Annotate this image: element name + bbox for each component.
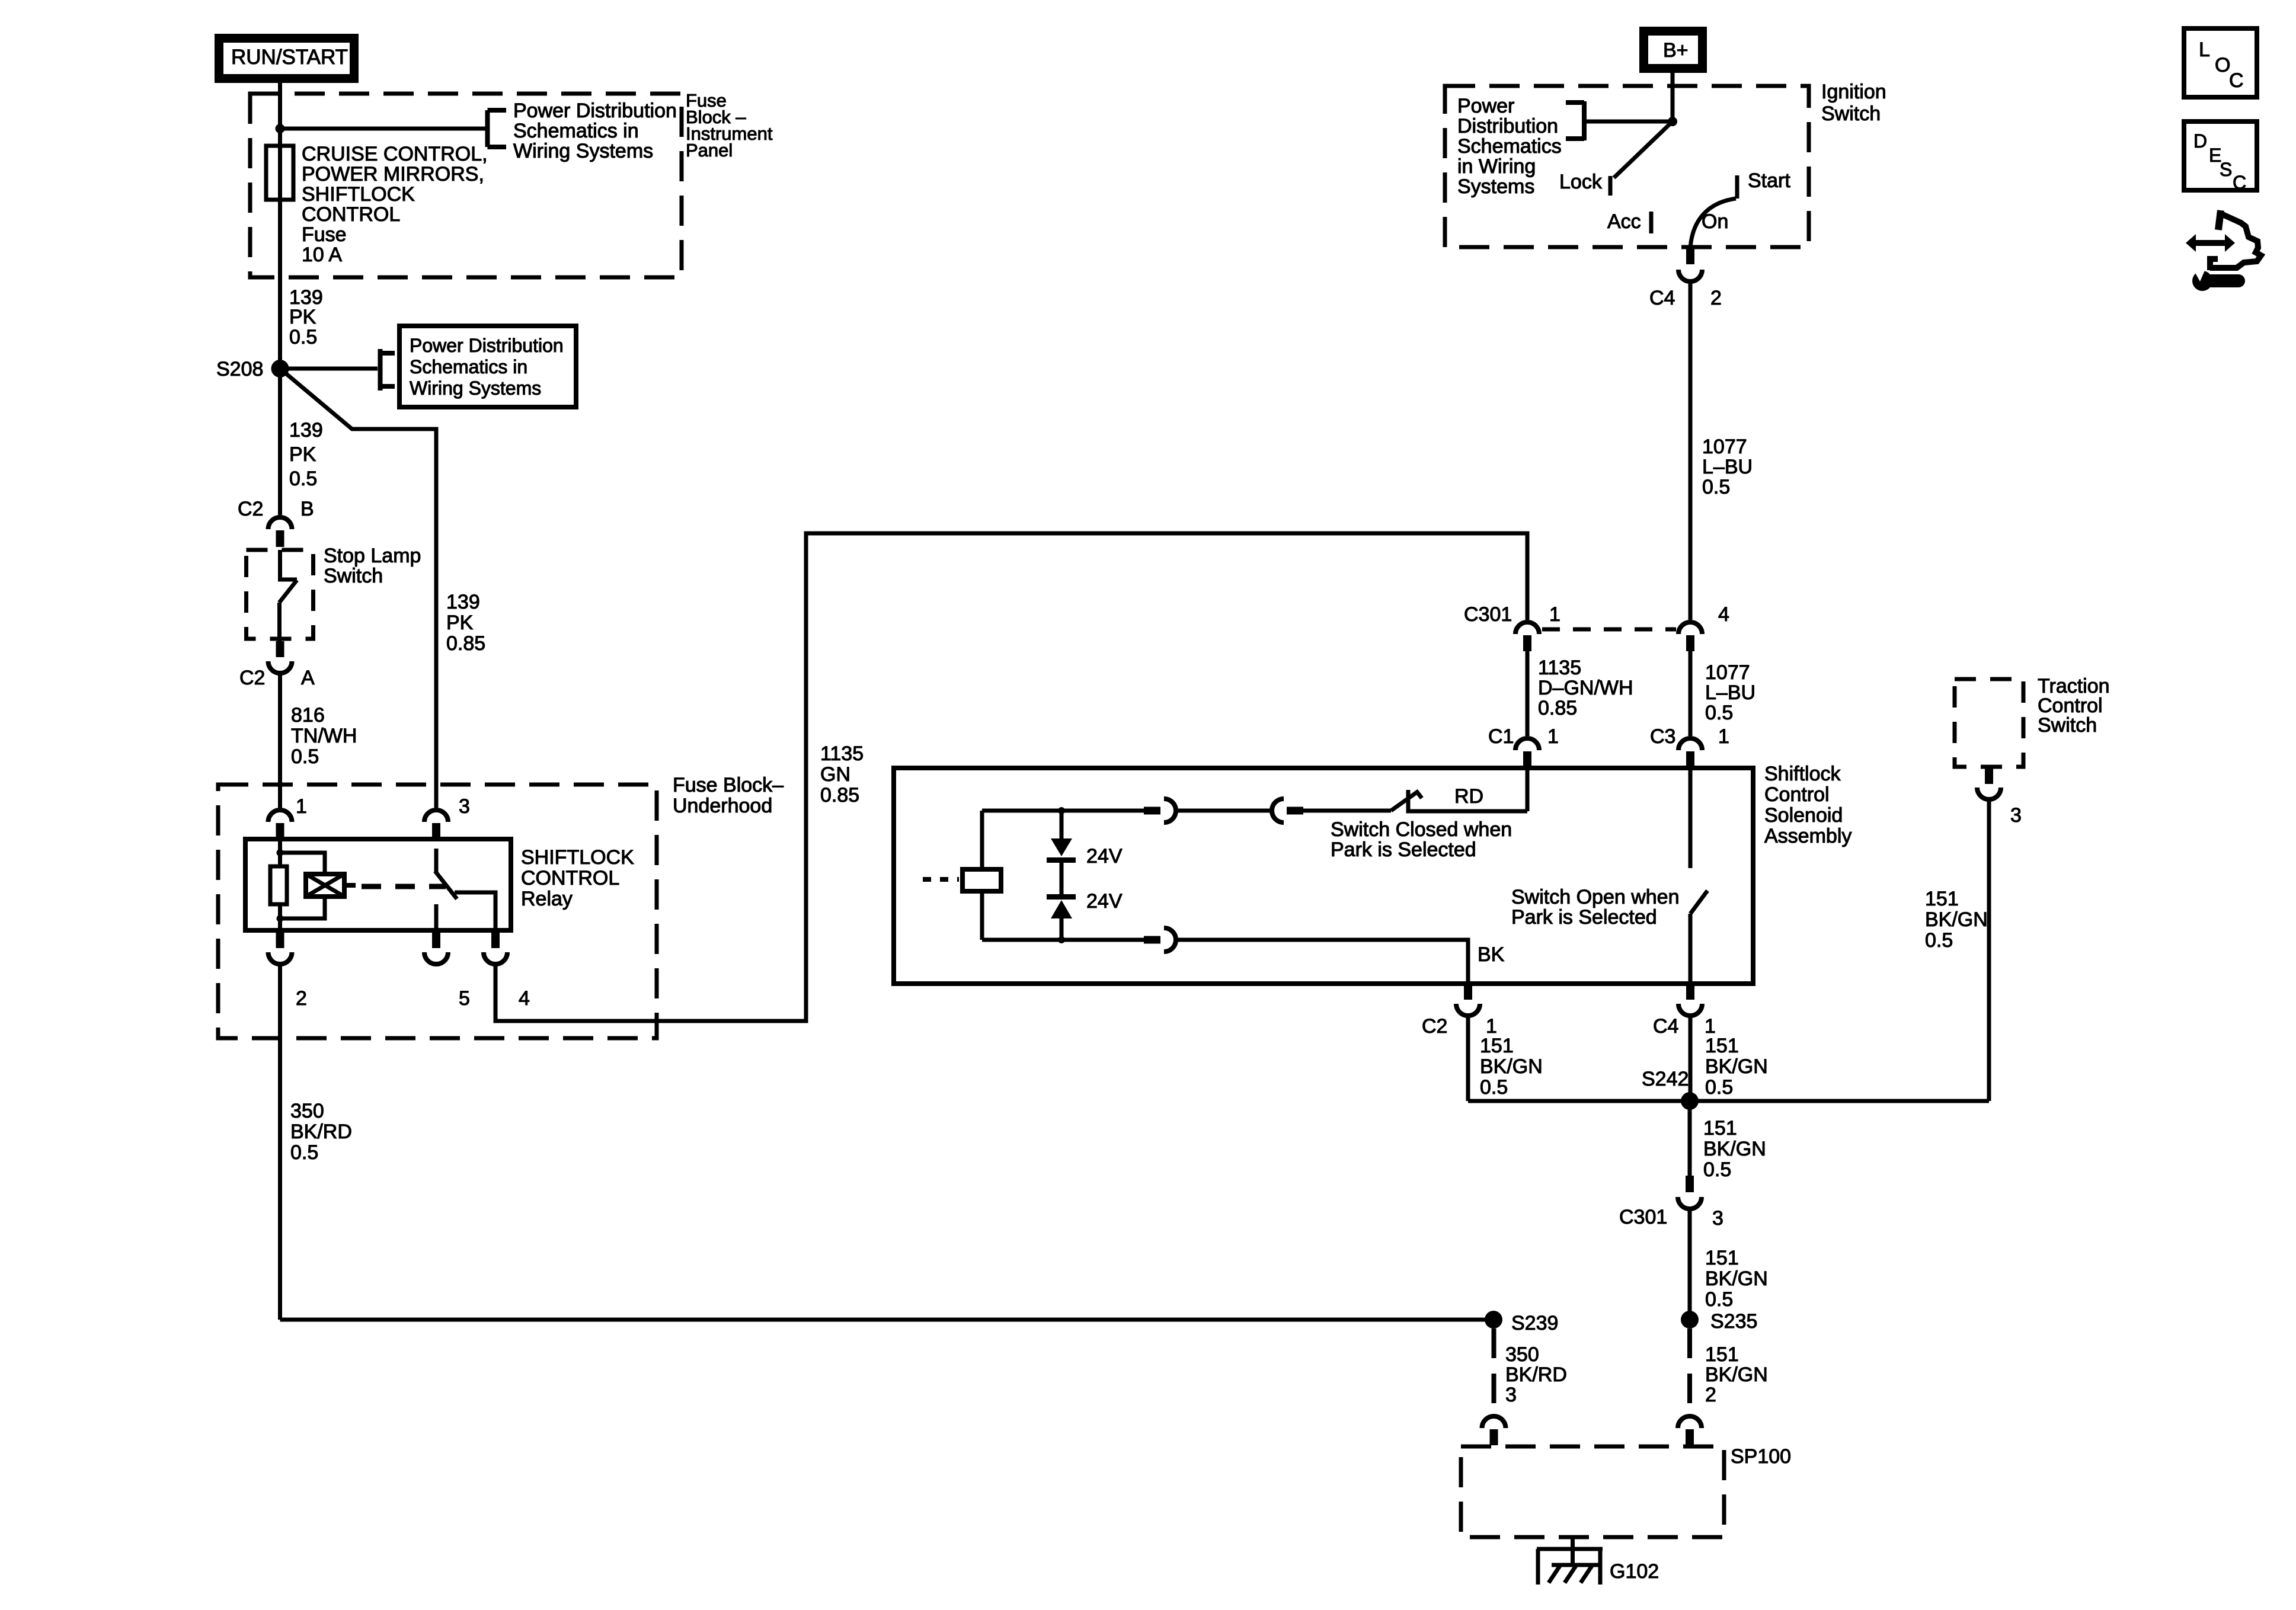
svg-text:PK: PK [289, 306, 316, 328]
svg-text:BK/RD: BK/RD [1505, 1363, 1567, 1386]
svg-text:S208: S208 [216, 358, 263, 380]
svg-text:D: D [2193, 130, 2207, 152]
svg-text:SP100: SP100 [1731, 1445, 1791, 1468]
svg-text:GN: GN [820, 763, 850, 786]
svg-text:Switch Open when: Switch Open when [1511, 886, 1680, 908]
svg-text:Wiring Systems: Wiring Systems [513, 140, 653, 162]
svg-text:Shiftlock: Shiftlock [1764, 763, 1841, 785]
svg-text:350: 350 [1505, 1343, 1539, 1366]
svg-text:C: C [2229, 69, 2244, 92]
svg-text:Control: Control [1764, 783, 1830, 806]
svg-text:C1: C1 [1488, 725, 1514, 748]
svg-text:PK: PK [289, 443, 316, 466]
svg-text:BK: BK [1478, 943, 1505, 966]
svg-text:BK/GN: BK/GN [1703, 1138, 1766, 1160]
svg-text:0.5: 0.5 [291, 745, 319, 768]
svg-text:2: 2 [296, 987, 307, 1010]
svg-text:S239: S239 [1511, 1312, 1558, 1334]
svg-text:Underhood: Underhood [673, 795, 772, 817]
svg-text:Relay: Relay [521, 888, 573, 910]
svg-text:C301: C301 [1619, 1206, 1667, 1228]
svg-text:C4: C4 [1653, 1015, 1678, 1038]
svg-text:C3: C3 [1650, 725, 1675, 748]
svg-text:Distribution: Distribution [1457, 115, 1558, 137]
svg-text:C2: C2 [238, 498, 263, 520]
svg-text:Wiring Systems: Wiring Systems [410, 377, 541, 399]
svg-text:L–BU: L–BU [1705, 681, 1755, 704]
svg-text:Schematics in: Schematics in [410, 356, 527, 377]
svg-text:0.85: 0.85 [446, 632, 485, 655]
svg-text:CRUISE CONTROL,: CRUISE CONTROL, [302, 143, 488, 165]
svg-text:Systems: Systems [1457, 175, 1534, 198]
svg-text:0.5: 0.5 [1925, 929, 1953, 952]
svg-text:S235: S235 [1710, 1310, 1757, 1333]
svg-text:1: 1 [296, 795, 307, 818]
svg-text:0.5: 0.5 [1705, 1288, 1733, 1311]
svg-text:CONTROL: CONTROL [302, 203, 400, 226]
svg-text:0.5: 0.5 [1703, 1158, 1731, 1181]
svg-text:10 A: 10 A [302, 244, 342, 266]
svg-text:C301: C301 [1464, 603, 1512, 626]
svg-text:POWER MIRRORS,: POWER MIRRORS, [302, 163, 484, 185]
svg-text:Stop Lamp: Stop Lamp [324, 545, 421, 567]
svg-text:24V: 24V [1086, 845, 1123, 868]
svg-text:B+: B+ [1663, 39, 1689, 62]
svg-text:0.5: 0.5 [1702, 476, 1730, 498]
svg-text:Acc: Acc [1607, 210, 1641, 233]
svg-text:1: 1 [1547, 725, 1559, 748]
svg-text:151: 151 [1705, 1343, 1739, 1366]
svg-text:Power Distribution: Power Distribution [513, 100, 677, 122]
svg-text:3: 3 [1712, 1207, 1723, 1230]
svg-text:C: C [2233, 172, 2246, 193]
svg-text:0.5: 0.5 [289, 468, 317, 490]
svg-text:151: 151 [1705, 1035, 1739, 1057]
svg-text:L–BU: L–BU [1702, 456, 1753, 478]
svg-text:3: 3 [1505, 1384, 1517, 1406]
svg-text:BK/GN: BK/GN [1705, 1267, 1768, 1290]
svg-text:CONTROL: CONTROL [521, 867, 619, 889]
svg-text:Fuse Block–: Fuse Block– [673, 774, 784, 796]
svg-text:2: 2 [1710, 287, 1722, 309]
svg-text:Switch Closed when: Switch Closed when [1331, 818, 1512, 841]
svg-text:Panel: Panel [686, 140, 733, 161]
svg-text:On: On [1702, 210, 1728, 233]
svg-text:0.5: 0.5 [1705, 1076, 1733, 1099]
svg-text:B: B [300, 498, 314, 520]
svg-text:816: 816 [291, 704, 325, 726]
svg-text:1: 1 [1549, 603, 1560, 626]
svg-text:BK/GN: BK/GN [1925, 908, 1988, 931]
svg-text:0.85: 0.85 [820, 784, 859, 806]
svg-text:PK: PK [446, 612, 474, 634]
svg-text:BK/RD: BK/RD [290, 1121, 352, 1143]
svg-text:Start: Start [1748, 169, 1790, 192]
svg-text:Assembly: Assembly [1764, 825, 1851, 847]
svg-text:1135: 1135 [1538, 657, 1581, 679]
svg-text:1077: 1077 [1705, 661, 1750, 684]
svg-text:S: S [2220, 159, 2232, 180]
svg-text:0.85: 0.85 [1538, 697, 1577, 719]
svg-text:C2: C2 [1422, 1015, 1447, 1038]
svg-text:RD: RD [1454, 785, 1483, 808]
svg-text:151: 151 [1703, 1117, 1737, 1140]
svg-text:0.5: 0.5 [1705, 702, 1733, 724]
svg-text:5: 5 [459, 987, 470, 1010]
svg-text:1: 1 [1718, 725, 1729, 748]
svg-text:1135: 1135 [820, 742, 864, 765]
svg-text:BK/GN: BK/GN [1705, 1363, 1768, 1386]
svg-text:Switch: Switch [1821, 103, 1881, 125]
svg-text:C2: C2 [239, 667, 265, 689]
svg-text:Switch: Switch [2038, 714, 2097, 737]
svg-text:Schematics: Schematics [1457, 135, 1562, 158]
svg-text:Switch: Switch [324, 565, 383, 587]
svg-text:3: 3 [2010, 804, 2022, 827]
svg-text:D–GN/WH: D–GN/WH [1538, 677, 1633, 699]
svg-text:Park is Selected: Park is Selected [1331, 838, 1476, 861]
svg-text:RUN/START: RUN/START [231, 46, 348, 69]
svg-text:4: 4 [519, 987, 530, 1010]
svg-text:Lock: Lock [1559, 171, 1603, 193]
svg-text:151: 151 [1705, 1247, 1739, 1269]
svg-text:S242: S242 [1642, 1068, 1689, 1090]
svg-text:0.5: 0.5 [1480, 1076, 1508, 1099]
svg-text:350: 350 [290, 1100, 324, 1122]
svg-text:A: A [301, 667, 315, 689]
svg-text:3: 3 [459, 795, 470, 818]
svg-text:139: 139 [446, 591, 480, 613]
svg-text:139: 139 [289, 419, 323, 441]
svg-text:0.5: 0.5 [289, 326, 317, 348]
svg-text:4: 4 [1718, 603, 1729, 626]
svg-text:Ignition: Ignition [1821, 81, 1886, 103]
svg-text:BK/GN: BK/GN [1705, 1055, 1768, 1078]
svg-text:in Wiring: in Wiring [1457, 155, 1536, 178]
svg-text:C4: C4 [1649, 287, 1675, 309]
svg-text:151: 151 [1925, 888, 1959, 910]
svg-text:O: O [2215, 54, 2230, 76]
svg-text:1077: 1077 [1702, 436, 1747, 458]
svg-text:Fuse: Fuse [302, 223, 347, 246]
svg-text:Solenoid: Solenoid [1764, 804, 1843, 827]
svg-text:SHIFTLOCK: SHIFTLOCK [521, 846, 634, 869]
svg-text:Power Distribution: Power Distribution [410, 335, 564, 356]
svg-text:24V: 24V [1086, 890, 1123, 913]
svg-text:0.5: 0.5 [290, 1141, 318, 1164]
svg-text:SHIFTLOCK: SHIFTLOCK [302, 183, 415, 206]
svg-text:151: 151 [1480, 1035, 1514, 1057]
svg-text:Power: Power [1457, 95, 1514, 117]
svg-text:2: 2 [1705, 1384, 1716, 1406]
svg-text:L: L [2199, 39, 2210, 61]
svg-text:BK/GN: BK/GN [1480, 1055, 1543, 1078]
svg-text:TN/WH: TN/WH [291, 725, 357, 747]
svg-text:G102: G102 [1610, 1560, 1659, 1583]
svg-text:Schematics in: Schematics in [513, 120, 639, 142]
svg-text:Park is Selected: Park is Selected [1511, 906, 1657, 929]
